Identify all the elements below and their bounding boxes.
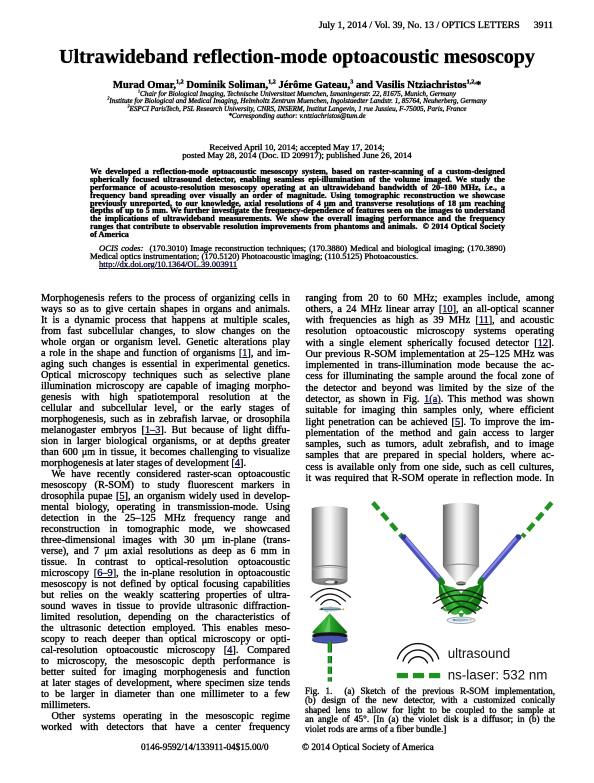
fig (b) transducer cylinder with conical tip — [443, 503, 479, 585]
svg-text:ns-laser: 532 nm: ns-laser: 532 nm — [448, 668, 548, 683]
fig (b) sample dish with zebrafish — [447, 617, 475, 623]
svg-text:ultrasound: ultrasound — [448, 646, 511, 661]
fig (a) laser beam rod and dashes — [328, 642, 332, 682]
fig (a) transducer cylinder — [312, 506, 348, 585]
fig (b) laser dashed beams — [373, 503, 552, 537]
fig (a) violet diffuser disk — [312, 636, 348, 644]
fig (a) ultrasound arcs — [311, 589, 351, 606]
legend ultrasound arcs symbol — [397, 644, 439, 664]
fig (b) green conically shaped lens (crossed cones) — [437, 576, 486, 619]
fig (b) fiber bundle arms (violet rods) — [399, 533, 522, 581]
legend laser dashes — [397, 673, 440, 678]
fig (a) green conical lens — [312, 613, 347, 635]
fig (b) ultrasound wavefront arcs — [433, 590, 488, 614]
fig (a) matching layer disk (black) — [312, 632, 347, 638]
fig (a) zebrafish sample — [319, 607, 344, 613]
